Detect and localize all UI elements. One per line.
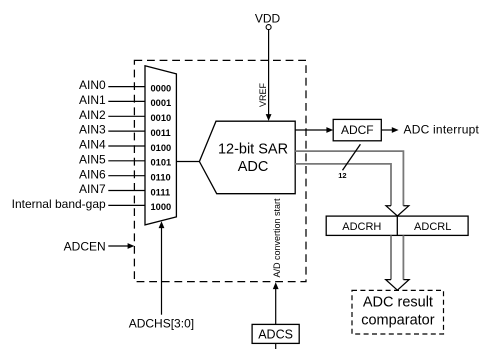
bus 12-bit result upper line <box>295 151 403 206</box>
svg-text:A/D convertion start: A/D convertion start <box>272 198 282 278</box>
wire AIN4 to mux <box>108 145 145 147</box>
bus arrowhead into comparator <box>386 280 409 291</box>
multiplexer MUX <box>145 66 176 225</box>
wire mux output to ADC <box>176 161 199 163</box>
svg-text:VDD: VDD <box>255 11 281 25</box>
wire Internal band-gap to mux <box>108 204 145 206</box>
wire AIN3 to mux <box>108 130 145 132</box>
svg-text:ADCHS[3:0]: ADCHS[3:0] <box>129 317 194 331</box>
svg-text:0101: 0101 <box>151 158 172 168</box>
wire AIN1 to mux <box>108 100 145 102</box>
wire ADC to ADCF <box>295 129 328 131</box>
svg-text:ADC interrupt: ADC interrupt <box>404 123 480 137</box>
wire VDD/VREF into ADC <box>268 30 270 115</box>
svg-text:1000: 1000 <box>151 202 172 212</box>
wire AIN6 to mux <box>108 175 145 177</box>
svg-text:AIN6: AIN6 <box>79 167 106 181</box>
ADC result comparator block <box>352 290 444 334</box>
bus ADCRH/ADCRL to comparator right line <box>402 235 404 279</box>
bus width slash <box>343 144 361 170</box>
svg-text:comparator: comparator <box>361 313 435 329</box>
wire mux select line from ADCHS <box>161 227 163 315</box>
svg-text:AIN7: AIN7 <box>79 182 106 196</box>
svg-text:Internal band-gap: Internal band-gap <box>12 197 106 211</box>
svg-text:0010: 0010 <box>151 113 172 123</box>
svg-text:AIN4: AIN4 <box>79 138 106 152</box>
svg-text:ADCEN: ADCEN <box>64 239 106 253</box>
svg-text:AIN1: AIN1 <box>79 93 106 107</box>
svg-text:0110: 0110 <box>151 173 171 183</box>
svg-text:ADCF: ADCF <box>341 123 374 137</box>
svg-text:12-bit SAR: 12-bit SAR <box>218 142 288 158</box>
wire AIN7 to mux <box>108 190 145 192</box>
svg-text:AIN2: AIN2 <box>79 108 106 122</box>
svg-text:0011: 0011 <box>151 128 171 138</box>
wire stub below ADCS <box>275 343 277 349</box>
wire AIN2 to mux <box>108 115 145 117</box>
register ADCS <box>252 324 299 343</box>
bus ADCRH/ADCRL to comparator left line <box>390 235 392 279</box>
wire ADCF to ADC interrupt <box>381 129 393 131</box>
svg-text:ADCS: ADCS <box>258 327 293 341</box>
ADC block dashed boundary <box>134 60 306 281</box>
svg-text:AIN3: AIN3 <box>79 123 106 137</box>
svg-text:ADC: ADC <box>238 159 269 175</box>
bus 12-bit result lower line <box>295 164 391 206</box>
svg-text:0100: 0100 <box>151 143 172 153</box>
register pair ADCRH / ADCRL <box>326 216 468 235</box>
bus arrowhead into ADCRH/ADCRL <box>386 206 409 216</box>
svg-text:12: 12 <box>338 171 346 180</box>
svg-text:ADC result: ADC result <box>363 294 433 310</box>
svg-text:ADCRL: ADCRL <box>414 221 451 233</box>
svg-text:AIN0: AIN0 <box>79 78 106 92</box>
wire ADCEN arrow into dashed box <box>108 245 129 247</box>
wire AIN5 to mux <box>108 160 145 162</box>
register ADCF <box>333 119 381 140</box>
svg-text:0111: 0111 <box>151 187 171 197</box>
wire ADCS conversion start <box>275 289 277 325</box>
svg-text:ADCRH: ADCRH <box>342 221 381 233</box>
svg-text:AIN5: AIN5 <box>79 152 106 166</box>
op-amp U1 12-bit SAR ADC core <box>199 121 295 194</box>
svg-text:VREF: VREF <box>258 82 268 107</box>
wire AIN0 to mux <box>108 86 145 88</box>
svg-text:0001: 0001 <box>151 98 172 108</box>
svg-text:0000: 0000 <box>151 83 172 93</box>
